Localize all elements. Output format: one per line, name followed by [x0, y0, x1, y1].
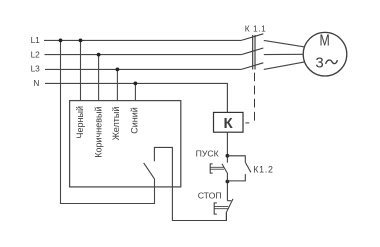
- start button actuator rod lower: [210, 168, 224, 170]
- svg-text:L1: L1: [31, 35, 41, 45]
- contact K1.2 lower branch wire: [227, 174, 245, 181]
- junction dot L3 tap: [116, 68, 120, 72]
- junction dot above start button: [226, 154, 230, 158]
- svg-text:L3: L3: [31, 64, 41, 74]
- wire motor lead 2: [264, 53, 303, 55]
- junction dot N tap: [134, 82, 138, 86]
- junction dot below start button: [226, 180, 230, 184]
- device box U1: [70, 101, 181, 187]
- start button actuator rod upper: [210, 166, 224, 168]
- svg-text:К1.2: К1.2: [253, 165, 274, 175]
- stop button lower terminal: [225, 212, 227, 220]
- start button blade: [222, 164, 227, 173]
- svg-text:Желтый: Желтый: [111, 107, 121, 141]
- wire control tap from L1 down, along bottom, up to relay contact: [61, 40, 155, 203]
- motor label tilde: [326, 60, 338, 64]
- wire bus L3: [45, 68, 241, 70]
- contact K1.1 blade phase L1: [241, 34, 263, 41]
- svg-text:К: К: [224, 115, 234, 132]
- svg-text:3: 3: [315, 54, 323, 71]
- contact K1.1 linkage bar right line: [254, 35, 255, 70]
- junction dot L1 tap 2: [79, 39, 83, 43]
- relay output contact fixed stub and bridge to right leg: [154, 147, 226, 220]
- wire yellow (to device box): [116, 69, 118, 101]
- wire motor lead 1: [264, 40, 305, 47]
- contact K1.1 linkage bar left line: [252, 35, 253, 70]
- svg-text:СТОП: СТОП: [198, 191, 222, 201]
- junction dot L1 tap 1: [59, 39, 63, 43]
- junction dot L2 tap: [97, 53, 101, 57]
- contact K1.2 upper branch wire: [227, 156, 245, 163]
- wire bus L2: [45, 54, 242, 56]
- svg-text:Черный: Черный: [75, 106, 85, 138]
- stop button seat: [227, 200, 231, 202]
- stop button blade: [226, 199, 233, 213]
- wire coil K to start button node: [226, 132, 228, 156]
- contact K1.1 blade phase L3: [241, 63, 263, 70]
- wire brown (to device box): [98, 55, 100, 101]
- svg-text:К 1.1: К 1.1: [245, 24, 267, 34]
- svg-text:Синий: Синий: [130, 107, 140, 134]
- svg-text:ПУСК: ПУСК: [196, 149, 220, 159]
- start button actuator cap: [210, 164, 213, 173]
- svg-text:N: N: [33, 78, 39, 88]
- svg-text:М: М: [320, 33, 330, 50]
- contact K1.1 blade phase L2: [241, 48, 263, 55]
- contactor coil K box: [214, 112, 244, 132]
- wire blue (to device box): [134, 83, 136, 101]
- wire bus L1: [44, 39, 241, 41]
- stop button actuator cap: [214, 203, 217, 214]
- motor M circle: [303, 32, 347, 76]
- svg-text:L2: L2: [31, 49, 41, 59]
- stop button actuator rod lower: [214, 208, 228, 210]
- start button upper terminal: [226, 156, 228, 163]
- svg-text:Коричневый: Коричневый: [94, 106, 104, 157]
- wire bus N (runs right then down to contactor coil K): [45, 83, 227, 112]
- start button lower terminal: [226, 173, 228, 182]
- relay output contact blade (inside device box): [144, 163, 155, 179]
- stop button actuator rod upper: [214, 206, 228, 208]
- wire black (to device box): [80, 40, 82, 101]
- contact K1.2 blade: [245, 162, 251, 172]
- stop button upper terminal: [226, 182, 228, 201]
- dashed link horizontal dash into coil K: [245, 122, 249, 124]
- wire motor lead 3: [264, 62, 305, 70]
- dashed mechanical link from K1.1 to coil K: [254, 73, 256, 121]
